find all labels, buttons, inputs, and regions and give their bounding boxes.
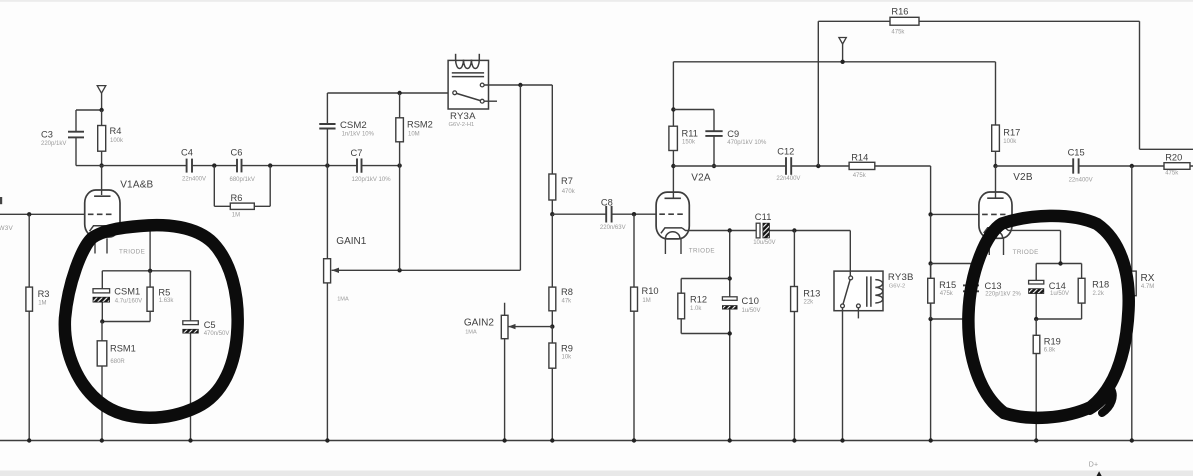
wire C14 rail bottom bbox=[1036, 318, 1081, 320]
tube V2A bbox=[656, 173, 711, 239]
svg-text:10M: 10M bbox=[408, 132, 420, 138]
svg-text:R7: R7 bbox=[561, 176, 573, 186]
junction top rail/RSM2 bbox=[397, 91, 401, 95]
wire row3 C15 to R20 bbox=[1079, 165, 1164, 167]
svg-text:1u/50V: 1u/50V bbox=[1050, 291, 1069, 297]
junction RY3A output bbox=[518, 83, 522, 87]
resistor RSM2 bbox=[396, 93, 433, 270]
junction ground bus 9 bbox=[792, 438, 796, 442]
wire supply rail y62 bbox=[673, 61, 995, 63]
wire V2A heater leg right bbox=[680, 239, 682, 255]
capacitor C3 bbox=[41, 130, 84, 148]
wire R6 right leg bbox=[269, 166, 271, 207]
svg-text:R8: R8 bbox=[561, 287, 573, 297]
svg-text:680p/1kV: 680p/1kV bbox=[230, 177, 255, 183]
svg-text:680R: 680R bbox=[110, 359, 125, 365]
junction ground bus 11 bbox=[929, 438, 933, 442]
svg-text:1.0k: 1.0k bbox=[690, 306, 702, 312]
wire R16 left column bbox=[817, 21, 819, 166]
wire GAIN1 wiper row bbox=[332, 269, 521, 271]
wire V1 cathode down bbox=[149, 231, 151, 271]
wire top rail to RY3A bbox=[327, 92, 453, 94]
marker circle annotation left bbox=[65, 225, 238, 418]
junction antenna/R4 top bbox=[99, 108, 103, 112]
svg-text:RY3B: RY3B bbox=[888, 272, 914, 283]
svg-text:RSM2: RSM2 bbox=[407, 120, 433, 130]
svg-text:RY3A: RY3A bbox=[450, 111, 476, 122]
svg-text:1M: 1M bbox=[642, 298, 650, 304]
wire CSM2 top leg bbox=[326, 93, 328, 124]
capacitor C9 bbox=[705, 129, 767, 146]
wire V2B heater leg right bbox=[1003, 238, 1005, 255]
svg-text:C15: C15 bbox=[1068, 148, 1085, 158]
svg-text:V1A&B: V1A&B bbox=[120, 179, 153, 190]
wire R15 column bbox=[930, 214, 932, 440]
resistor R9 bbox=[549, 327, 573, 441]
wire C13 rail bottom bbox=[931, 318, 971, 320]
resistor R13 bbox=[791, 231, 821, 441]
wire V2B plate lead bbox=[995, 166, 997, 198]
svg-text:R16: R16 bbox=[891, 7, 908, 17]
svg-text:R12: R12 bbox=[690, 294, 707, 304]
svg-text:R6: R6 bbox=[231, 193, 243, 203]
wire feedback vertical bbox=[519, 85, 521, 270]
junction C11/R13 bbox=[792, 228, 796, 232]
junction cathode/C14 rail bbox=[1058, 261, 1062, 265]
wire RY3B common down bbox=[842, 308, 844, 441]
svg-text:R18: R18 bbox=[1092, 279, 1109, 289]
wire V2A heater leg left bbox=[664, 239, 666, 255]
capacitor C10 bbox=[722, 296, 760, 314]
resistor R4 bbox=[98, 110, 124, 166]
junction ground bus 12 bbox=[1034, 438, 1038, 442]
wire cathode rail bottom bbox=[102, 321, 150, 323]
svg-text:R20: R20 bbox=[1165, 153, 1182, 163]
svg-text:220p/1kV 2%: 220p/1kV 2% bbox=[985, 291, 1021, 297]
junction C15/RX bbox=[1130, 164, 1134, 168]
capacitor C15 bbox=[1068, 148, 1093, 184]
svg-text:1.63k: 1.63k bbox=[159, 298, 175, 304]
junction ground bus 5 bbox=[502, 438, 506, 442]
wire row2 C12 to R14 bbox=[791, 165, 849, 167]
svg-text:1n/1kV 10%: 1n/1kV 10% bbox=[342, 132, 375, 138]
svg-text:R3: R3 bbox=[38, 289, 50, 299]
capacitor C13 bbox=[963, 281, 1022, 297]
svg-text:C10: C10 bbox=[742, 296, 760, 306]
svg-text:475k: 475k bbox=[940, 291, 954, 297]
svg-text:C4: C4 bbox=[181, 148, 193, 158]
resistor R11 bbox=[669, 62, 698, 166]
wire V2B cathode exit bbox=[1005, 228, 1061, 231]
junction ground bus 7 bbox=[632, 438, 636, 442]
wire C13 rail top bbox=[931, 263, 971, 265]
junction ground bus 1 bbox=[27, 438, 31, 442]
svg-text:R14: R14 bbox=[851, 152, 868, 162]
wire V2B cathode down bbox=[1060, 230, 1062, 263]
resistor R14 bbox=[849, 152, 931, 179]
svg-text:GAIN2: GAIN2 bbox=[464, 317, 494, 328]
capacitor C11 bbox=[730, 212, 776, 246]
relay RY3B bbox=[834, 271, 914, 311]
svg-text:470k: 470k bbox=[562, 189, 576, 195]
junction V2A plate node bbox=[671, 164, 675, 168]
svg-text:47k: 47k bbox=[562, 298, 573, 304]
svg-text:1M: 1M bbox=[38, 300, 46, 306]
junction ground bus 2 bbox=[100, 438, 104, 442]
svg-text:475k: 475k bbox=[891, 29, 905, 35]
wire C14 rail top bbox=[1036, 263, 1081, 265]
svg-text:4.7M: 4.7M bbox=[1141, 284, 1154, 290]
wire row1 C4 to C6 bbox=[192, 165, 237, 167]
wire row1 C3 to C4 bbox=[76, 165, 186, 167]
junction cathode rail bbox=[148, 269, 152, 273]
svg-text:470n/50V: 470n/50V bbox=[204, 331, 230, 337]
junction R4 bottom node bbox=[99, 163, 103, 167]
resistor R5 bbox=[147, 271, 174, 322]
resistor RSM1 bbox=[97, 322, 136, 441]
svg-text:470p/1kV 10%: 470p/1kV 10% bbox=[727, 140, 767, 146]
wire V2A plate lead bbox=[672, 166, 674, 199]
svg-text:GAIN1: GAIN1 bbox=[336, 236, 366, 247]
svg-text:C9: C9 bbox=[727, 129, 739, 139]
bottom scan band bbox=[0, 471, 1193, 476]
wire C3 bottom leg bbox=[75, 138, 77, 166]
capacitor CSM1 bbox=[93, 271, 142, 322]
junction R17 bottom bbox=[993, 164, 997, 168]
relay RY3A bbox=[448, 54, 488, 128]
wire C11 left bbox=[730, 230, 756, 232]
wire row2 corner down bbox=[930, 166, 932, 214]
svg-text:C14: C14 bbox=[1049, 281, 1066, 291]
svg-text:100k: 100k bbox=[1003, 139, 1017, 145]
potentiometer GAIN2 bbox=[464, 303, 508, 441]
svg-text:W3V: W3V bbox=[0, 225, 13, 232]
svg-text:RSM1: RSM1 bbox=[110, 343, 136, 353]
svg-text:22n400V: 22n400V bbox=[776, 176, 800, 182]
svg-text:TRIODE: TRIODE bbox=[119, 248, 145, 255]
wire antenna A1 lead bbox=[101, 93, 103, 110]
svg-text:22n400V: 22n400V bbox=[182, 177, 206, 183]
junction V2A cathode bbox=[728, 228, 732, 232]
wire C9 top leg bbox=[713, 110, 715, 132]
resistor R18 bbox=[1078, 264, 1109, 320]
svg-text:G6V-2-H1: G6V-2-H1 bbox=[449, 122, 475, 128]
resistor R6 bbox=[214, 193, 270, 219]
junction R8/GAIN2 wiper bbox=[550, 324, 554, 328]
wire GAIN2 wiper row bbox=[508, 326, 552, 328]
svg-text:120p/1kV 10%: 120p/1kV 10% bbox=[352, 177, 392, 183]
wire C10 column bottom bbox=[729, 309, 731, 440]
svg-text:C7: C7 bbox=[351, 148, 363, 158]
svg-text:1M: 1M bbox=[232, 213, 240, 219]
wire input row bbox=[0, 213, 85, 215]
svg-text:C11: C11 bbox=[755, 212, 772, 222]
svg-text:22n400V: 22n400V bbox=[1069, 177, 1093, 183]
resistor R12 bbox=[678, 279, 707, 334]
wire ground bus bbox=[0, 440, 1193, 442]
svg-text:V2A: V2A bbox=[691, 173, 711, 184]
wire V2B grid wire bbox=[931, 213, 980, 215]
svg-text:C12: C12 bbox=[777, 146, 794, 156]
wire C9 bottom leg bbox=[713, 136, 715, 166]
wire V2A cathode exit bbox=[682, 228, 730, 231]
svg-text:2.2k: 2.2k bbox=[1093, 291, 1105, 297]
capacitor C4 bbox=[181, 148, 206, 183]
potentiometer GAIN1 bbox=[324, 166, 367, 441]
junction R11/C9 top bbox=[671, 107, 675, 111]
junction C14/R19 bbox=[1034, 317, 1038, 321]
junction R6 right bbox=[268, 163, 272, 167]
antenna symbol A1 bbox=[97, 86, 106, 94]
wire V2B heater leg left bbox=[988, 238, 990, 255]
junction ground bus 10 bbox=[840, 438, 844, 442]
wire C10 column top bbox=[729, 231, 731, 297]
wire R12 rail bottom bbox=[681, 333, 730, 335]
resistor R15 bbox=[928, 264, 956, 320]
svg-text:D+: D+ bbox=[1089, 462, 1099, 469]
wire cathode rail top bbox=[102, 270, 190, 272]
wire C8 left bbox=[552, 213, 606, 215]
edge text fragment bbox=[0, 197, 2, 204]
wiper arrow GAIN1 bbox=[332, 268, 339, 273]
wire RY3B NC stub bbox=[857, 308, 859, 319]
wire row1 C7 to RSM2 bbox=[362, 165, 400, 167]
svg-text:TRIODE: TRIODE bbox=[1013, 249, 1039, 256]
junction GAIN1/CSM2 column bbox=[325, 163, 329, 167]
capacitor C8 bbox=[600, 197, 626, 231]
wiper arrow GAIN2 bbox=[508, 324, 515, 329]
wire C13 bottom leg bbox=[970, 292, 972, 320]
wire row2 plate to C12 bbox=[673, 165, 785, 167]
svg-text:150k: 150k bbox=[682, 140, 696, 146]
junction R7/C8 bbox=[550, 212, 554, 216]
wire row3 to C15 bbox=[996, 165, 1073, 167]
junction antenna A2 bbox=[840, 60, 844, 64]
junction wiper/RSM2 bbox=[397, 268, 401, 272]
wire CSM2 bottom leg bbox=[326, 129, 328, 166]
resistor R3 bbox=[26, 214, 50, 440]
capacitor C6 bbox=[230, 147, 255, 183]
svg-text:RX: RX bbox=[1141, 273, 1155, 284]
svg-text:4.7u/160V: 4.7u/160V bbox=[115, 299, 142, 305]
svg-text:R19: R19 bbox=[1044, 337, 1061, 347]
svg-text:1u/50V: 1u/50V bbox=[742, 308, 761, 314]
svg-text:CSM1: CSM1 bbox=[114, 287, 140, 297]
svg-text:220n/63V: 220n/63V bbox=[600, 225, 626, 231]
junction RSM2 column at row1 bbox=[397, 163, 401, 167]
svg-text:CSM2: CSM2 bbox=[340, 120, 367, 131]
wire RY3A output bbox=[484, 84, 552, 86]
wire R7 top bbox=[551, 85, 553, 174]
wire V1 heater leg right bbox=[106, 238, 108, 253]
wire to RY3B corner bbox=[849, 231, 851, 277]
junction ground bus 6 bbox=[550, 438, 554, 442]
wire V1 heater leg left bbox=[94, 238, 96, 253]
svg-text:22k: 22k bbox=[804, 300, 815, 306]
junction R6 left bbox=[212, 163, 216, 167]
svg-text:R10: R10 bbox=[642, 286, 659, 296]
marker arrow D+ bbox=[1097, 471, 1102, 476]
wire RY3A NC stub bbox=[484, 100, 497, 102]
svg-text:R13: R13 bbox=[803, 288, 820, 298]
capacitor C5 bbox=[183, 271, 230, 441]
svg-text:G6V-2: G6V-2 bbox=[889, 284, 905, 290]
top scan edge bbox=[0, 0, 1193, 2]
svg-text:475k: 475k bbox=[853, 173, 867, 179]
resistor RX bbox=[1129, 166, 1155, 441]
svg-text:220p/1kV: 220p/1kV bbox=[41, 141, 66, 147]
junction C9 bottom bbox=[712, 164, 716, 168]
svg-text:C3: C3 bbox=[41, 130, 53, 140]
wire R6 left leg bbox=[213, 166, 215, 207]
svg-text:R4: R4 bbox=[110, 126, 122, 136]
junction ground bus 13 bbox=[1130, 438, 1134, 442]
wire antenna A2 lead bbox=[842, 44, 844, 62]
svg-text:C5: C5 bbox=[204, 320, 216, 330]
svg-text:R17: R17 bbox=[1003, 127, 1020, 137]
resistor R8 bbox=[549, 214, 573, 326]
svg-text:TRIODE: TRIODE bbox=[689, 247, 715, 254]
wire row1 C6 to C7 bbox=[242, 165, 357, 167]
svg-text:R15: R15 bbox=[939, 280, 956, 290]
svg-text:R5: R5 bbox=[158, 288, 170, 298]
svg-text:R9: R9 bbox=[561, 344, 573, 354]
svg-text:C8: C8 bbox=[601, 197, 613, 207]
wire R12 rail top bbox=[681, 278, 730, 280]
svg-text:6.8k: 6.8k bbox=[1044, 348, 1056, 354]
junction V2B grid tee bbox=[928, 212, 932, 216]
wire C11 right bbox=[769, 230, 850, 232]
junction CSM1 bottom bbox=[100, 319, 104, 323]
svg-text:10u/50V: 10u/50V bbox=[753, 240, 775, 246]
svg-text:V2B: V2B bbox=[1013, 172, 1033, 183]
tube V2B bbox=[979, 172, 1033, 238]
capacitor C14 bbox=[1029, 264, 1069, 320]
junction R15 top bbox=[928, 261, 932, 265]
capacitor CSM2 bbox=[319, 120, 374, 138]
junction R12/C10 top bbox=[728, 276, 732, 280]
junction C8/R10 bbox=[632, 212, 636, 216]
marker circle annotation right bbox=[968, 216, 1128, 418]
junction ground bus 4 bbox=[325, 438, 329, 442]
junction R15 bottom bbox=[928, 317, 932, 321]
resistor R7 bbox=[549, 174, 576, 214]
resistor R10 bbox=[631, 214, 659, 440]
capacitor C7 bbox=[351, 148, 392, 183]
svg-text:C13: C13 bbox=[985, 281, 1002, 291]
svg-text:R11: R11 bbox=[682, 129, 698, 139]
wire node top stub bbox=[76, 109, 102, 111]
tube V1A&amp;B bbox=[85, 179, 154, 237]
svg-text:475k: 475k bbox=[1165, 170, 1179, 176]
svg-text:C6: C6 bbox=[231, 147, 243, 157]
resistor R19 bbox=[1033, 319, 1061, 441]
wire C13 top leg bbox=[970, 264, 972, 286]
wire C3 top leg bbox=[75, 110, 77, 131]
junction row2/R16 column bbox=[816, 164, 820, 168]
junction C10 bottom bbox=[728, 331, 732, 335]
wire V1 cathode exit bbox=[111, 226, 150, 231]
antenna symbol A2 bbox=[839, 38, 846, 45]
junction ground bus 8 bbox=[728, 438, 732, 442]
resistor R17 bbox=[992, 62, 1021, 166]
svg-text:1MA: 1MA bbox=[465, 330, 477, 336]
junction ground bus 3 bbox=[188, 438, 192, 442]
wire R16 right down bbox=[1139, 21, 1141, 149]
marker pen tail right circle bbox=[1090, 389, 1113, 413]
resistor R16 bbox=[818, 7, 1139, 36]
wire R16 exit right bbox=[1140, 148, 1193, 150]
wire C8 right to V2A grid bbox=[612, 213, 657, 215]
svg-text:10k: 10k bbox=[562, 355, 573, 361]
junction input/R3 bbox=[27, 212, 31, 216]
svg-text:1MA: 1MA bbox=[337, 297, 349, 303]
resistor R20 bbox=[1164, 153, 1193, 177]
wire C9 top rail bbox=[673, 109, 714, 111]
capacitor C12 bbox=[776, 146, 800, 182]
wire V1 plate lead bbox=[101, 166, 103, 195]
svg-text:100k: 100k bbox=[110, 138, 124, 144]
